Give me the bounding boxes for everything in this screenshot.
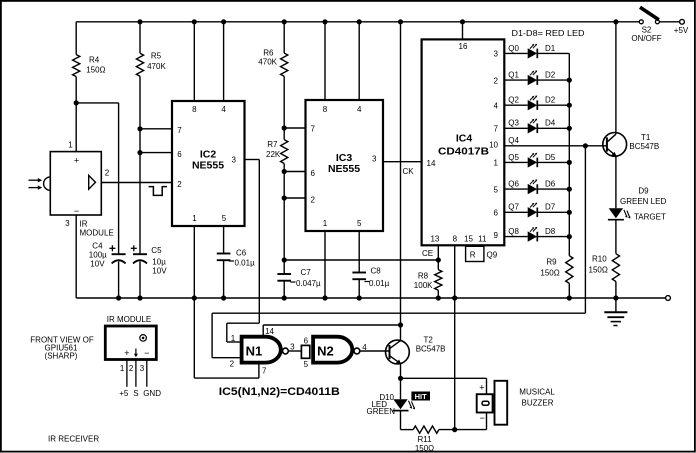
IR input arrows	[29, 179, 40, 181]
svg-text:3: 3	[65, 219, 70, 228]
wire C8 to ground	[358, 279, 360, 298]
svg-text:R7: R7	[267, 140, 278, 149]
wire IC3 pin 7	[284, 127, 305, 129]
svg-text:5: 5	[357, 219, 362, 228]
node T2 emitter	[398, 376, 403, 381]
junction IC4 pin16/rail	[460, 19, 465, 24]
node Q4 feedback	[583, 143, 588, 148]
junction ground rail	[221, 295, 226, 300]
svg-text:IC2: IC2	[200, 148, 217, 160]
svg-text:3: 3	[290, 343, 295, 352]
resistor R6	[281, 53, 288, 76]
wire N1 pin 2	[212, 357, 241, 359]
svg-text:0.047µ: 0.047µ	[296, 279, 321, 288]
svg-text:Q9: Q9	[487, 250, 498, 259]
wire IC4 pin8 to ground/buzzer	[454, 245, 456, 429]
svg-text:+: +	[74, 155, 79, 165]
svg-text:C4: C4	[92, 241, 103, 250]
svg-text:+: +	[124, 348, 129, 358]
lens arc on module	[44, 177, 51, 190]
svg-text:5: 5	[304, 360, 309, 369]
svg-text:3: 3	[140, 364, 145, 373]
wire D2 to bus	[537, 104, 569, 106]
svg-text:10V: 10V	[152, 267, 167, 276]
wire D10 to R11	[400, 411, 402, 430]
wire IC2 pin 7	[140, 128, 172, 130]
wire Q0 to D1	[504, 52, 527, 54]
svg-text:5: 5	[494, 185, 499, 194]
wire Q2 to D2	[504, 104, 527, 106]
svg-text:R: R	[470, 251, 476, 260]
svg-text:4: 4	[362, 343, 367, 352]
svg-text:GND: GND	[143, 389, 161, 398]
junction ground rail	[192, 295, 197, 300]
svg-text:8: 8	[192, 105, 197, 114]
node bus D6	[567, 187, 572, 192]
switch S2 ON/OFF	[639, 20, 643, 24]
svg-text:2: 2	[129, 364, 134, 373]
svg-text:Q2: Q2	[508, 96, 519, 105]
capacitor C6	[217, 253, 231, 255]
svg-text:D8: D8	[545, 227, 556, 236]
svg-text:5: 5	[222, 214, 227, 223]
svg-text:10µ: 10µ	[152, 258, 166, 267]
wire R7 to C7	[283, 164, 285, 275]
wire R9 to ground	[568, 283, 570, 298]
svg-text:−: −	[74, 206, 79, 216]
svg-text:2: 2	[177, 180, 182, 189]
wire Q4 feedback left	[212, 312, 585, 314]
junction T1 collector/rail	[613, 19, 618, 24]
wire pin7 left	[194, 377, 259, 379]
wire IC2 pin 1 to ground	[193, 226, 195, 298]
svg-text:D6: D6	[545, 180, 556, 189]
svg-text:BC547B: BC547B	[416, 344, 446, 353]
svg-text:HIT: HIT	[415, 392, 428, 401]
wire C5 to ground	[139, 262, 141, 299]
LED D5	[528, 157, 537, 167]
wire rail to R4	[75, 22, 77, 55]
junction ground rail	[436, 295, 441, 300]
wire N2 out to T2 base	[360, 350, 390, 352]
wire D7 to bus	[537, 211, 569, 213]
svg-text:T1: T1	[641, 133, 651, 142]
svg-text:Q4: Q4	[508, 136, 519, 145]
resistor R10	[612, 254, 619, 282]
svg-text:Q7: Q7	[508, 203, 519, 212]
junction IC3 pin8/rail	[322, 19, 327, 24]
wire T1 emitter to D9	[615, 156, 617, 208]
resistor R4	[73, 55, 80, 77]
wire Q7 to D7	[504, 211, 527, 213]
wire R6 to R7	[283, 76, 285, 139]
+5V terminal	[680, 19, 685, 24]
svg-text:14: 14	[265, 327, 274, 336]
svg-text:8: 8	[323, 105, 328, 114]
wire D9 to R10	[615, 220, 617, 254]
svg-text:MUSICAL: MUSICAL	[519, 387, 555, 396]
wire N1 pin 1	[227, 341, 242, 343]
svg-text:150Ω: 150Ω	[589, 266, 608, 275]
svg-text:100K: 100K	[414, 281, 433, 290]
LED D10	[393, 399, 407, 409]
svg-text:8: 8	[453, 234, 458, 243]
svg-text:4: 4	[357, 105, 362, 114]
svg-text:NE555: NE555	[328, 163, 360, 175]
svg-text:IC5(N1,N2)=CD4011B: IC5(N1,N2)=CD4011B	[219, 386, 340, 398]
svg-text:MODULE: MODULE	[80, 228, 114, 237]
svg-text:Q8: Q8	[508, 227, 519, 236]
svg-text:6: 6	[177, 150, 182, 159]
junction ground rail	[357, 295, 362, 300]
svg-text:C6: C6	[236, 248, 247, 257]
node pin14/+5V	[398, 322, 403, 327]
svg-text:+: +	[479, 383, 484, 393]
svg-text:R11: R11	[417, 435, 432, 444]
LED D9 target	[609, 208, 623, 218]
ground terminal	[666, 296, 671, 301]
LED D7	[528, 207, 537, 217]
svg-text:IR: IR	[80, 219, 88, 228]
svg-text:3: 3	[232, 156, 237, 165]
svg-text:16: 16	[459, 42, 468, 51]
op IC2 NE555 box	[172, 101, 245, 226]
wire N1 out	[288, 350, 301, 352]
window symbol	[140, 335, 147, 342]
wire pin14 to +5V feed	[263, 324, 400, 326]
wire R10 to ground	[615, 282, 617, 299]
svg-text:7: 7	[177, 126, 182, 135]
svg-text:Q1: Q1	[508, 71, 519, 80]
junction ground rail	[137, 295, 142, 300]
svg-text:N1: N1	[246, 343, 263, 358]
svg-text:IR RECEIVER: IR RECEIVER	[48, 435, 99, 444]
wire R5 to C5	[139, 76, 141, 254]
svg-text:9: 9	[494, 231, 499, 240]
wire Q8 to D8	[504, 236, 527, 238]
node bus D2	[567, 103, 572, 108]
node C7 / CE line	[282, 257, 287, 262]
wire T2 emitter to buzzer plus	[401, 377, 487, 379]
svg-text:14: 14	[427, 159, 436, 168]
wire IC4 pin 16	[462, 22, 464, 40]
wire buzzer plus lead	[486, 378, 488, 394]
svg-text:IC3: IC3	[336, 152, 353, 164]
svg-text:C8: C8	[371, 267, 382, 276]
wire Q4 feedback down	[584, 146, 586, 313]
svg-text:D1: D1	[545, 44, 556, 53]
resistor R9	[566, 256, 573, 284]
svg-text:D2: D2	[545, 71, 556, 80]
down arrow center pin	[135, 349, 137, 356]
svg-text:4: 4	[221, 105, 226, 114]
wire to C4	[76, 102, 118, 104]
svg-text:R4: R4	[89, 56, 100, 65]
pin 1 front view	[126, 360, 128, 387]
resistor R8	[435, 270, 442, 291]
svg-text:470K: 470K	[258, 57, 277, 66]
wire C4 to ground	[118, 262, 120, 299]
svg-text:11: 11	[478, 234, 487, 243]
wire IC3 pin 5 to C8	[358, 231, 360, 273]
wire IC3 pin 1 to ground	[324, 231, 326, 298]
wire D6 to bus	[537, 188, 569, 190]
wire D4 to bus	[537, 127, 569, 129]
svg-text:C7: C7	[301, 268, 312, 277]
LED D4	[528, 123, 537, 133]
svg-text:D5: D5	[545, 153, 556, 162]
svg-text:1: 1	[494, 159, 499, 168]
capacitor C4	[112, 253, 126, 255]
junction +5V feed IC5 pin14 & T2 collector	[398, 19, 403, 24]
wire +5V top rail	[76, 21, 639, 23]
LED D8	[528, 231, 537, 241]
LED cathode bus	[568, 53, 570, 255]
capacitor C8	[352, 272, 366, 274]
node bus D8	[567, 234, 572, 239]
svg-text:1: 1	[323, 219, 328, 228]
wire IC3 pin 2	[284, 197, 305, 199]
svg-text:15: 15	[464, 234, 473, 243]
wire R11 to buzzer minus	[439, 429, 487, 431]
wire Q3 to D4	[504, 127, 527, 129]
resistor R11	[413, 426, 439, 433]
tick C7 label	[290, 281, 295, 283]
wire IC3 pin 4	[358, 22, 360, 100]
svg-text:CE: CE	[422, 249, 433, 258]
node bus D7	[567, 210, 572, 215]
node bus D4	[567, 126, 572, 131]
svg-text:D2: D2	[545, 96, 556, 105]
svg-text:GREEN: GREEN	[367, 407, 396, 416]
svg-text:(SHARP): (SHARP)	[45, 352, 78, 361]
svg-text:3: 3	[494, 50, 499, 59]
op IC4 CD4017B box	[422, 39, 505, 245]
svg-text:IR MODULE: IR MODULE	[107, 315, 151, 324]
wire Q4 to T1 base	[504, 145, 607, 147]
ground symbol	[615, 298, 617, 312]
wire N1 pin14 up	[262, 325, 264, 337]
wire IC2 pin 4	[223, 22, 225, 101]
capacitor C7	[277, 273, 291, 275]
svg-text:Q6: Q6	[508, 180, 519, 189]
svg-text:R10: R10	[592, 255, 607, 264]
svg-text:150Ω: 150Ω	[540, 269, 559, 278]
svg-text:D9: D9	[638, 187, 649, 196]
svg-text:BUZZER: BUZZER	[522, 398, 554, 407]
wire D2 to bus	[537, 79, 569, 81]
svg-text:1: 1	[192, 214, 197, 223]
junction R5/rail	[137, 19, 142, 24]
svg-text:D1-D8= RED LED: D1-D8= RED LED	[512, 29, 585, 38]
wire pin7 to ground	[193, 298, 195, 378]
junction ground rail	[116, 295, 121, 300]
wire IC2 pin3 down	[258, 160, 260, 324]
junction R6/rail	[282, 19, 287, 24]
junction ground rail	[322, 295, 327, 300]
amp triangle in module	[89, 175, 96, 189]
svg-text:Q0: Q0	[508, 44, 519, 53]
HIT tag	[411, 392, 430, 401]
resistor R7	[281, 140, 288, 164]
wire ground rail	[76, 297, 665, 299]
svg-text:1: 1	[120, 364, 125, 373]
svg-text:S: S	[133, 389, 138, 398]
svg-text:7: 7	[494, 125, 499, 134]
svg-text:2: 2	[494, 76, 499, 85]
wire to N1 pin1 b	[226, 323, 228, 342]
wire IC2 pin3 out	[245, 159, 260, 161]
wire Q6 to D6	[504, 188, 527, 190]
svg-text:D7: D7	[545, 203, 556, 212]
node pin6 IC2	[137, 150, 142, 155]
svg-text:4: 4	[494, 101, 499, 110]
svg-text:13: 13	[430, 234, 439, 243]
buzzer contact box	[477, 394, 493, 412]
node IC3 pin7	[282, 125, 287, 130]
node bus D2	[567, 78, 572, 83]
svg-text:T2: T2	[424, 335, 434, 344]
svg-text:+5: +5	[119, 389, 129, 398]
wire module pin2 to IC2 pin2	[101, 182, 172, 184]
svg-text:R9: R9	[546, 258, 557, 267]
svg-text:10V: 10V	[90, 259, 105, 268]
svg-text:R5: R5	[151, 52, 162, 61]
wire IC2 pin 5 to C6	[223, 226, 225, 254]
node pin7 IC2	[137, 126, 142, 131]
wire IC2 pin 8	[193, 22, 195, 101]
wire N1 pin7 down	[258, 363, 260, 379]
svg-text:2: 2	[230, 359, 235, 368]
svg-text:7: 7	[311, 125, 316, 134]
svg-text:−: −	[480, 413, 485, 423]
svg-text:0.01µ: 0.01µ	[235, 259, 256, 268]
junction ground rail	[567, 295, 572, 300]
wire to N1 pin2 down	[211, 313, 213, 358]
svg-text:6: 6	[311, 169, 316, 178]
svg-text:2: 2	[311, 195, 316, 204]
svg-text:7: 7	[262, 367, 267, 376]
svg-text:1: 1	[231, 334, 236, 343]
wire C6 to ground	[223, 260, 225, 298]
IR module front view box	[105, 326, 156, 360]
transistor T2 BC547B	[386, 340, 410, 364]
pin 2 front view	[135, 360, 137, 387]
svg-text:22K: 22K	[266, 150, 281, 159]
svg-text:100µ: 100µ	[89, 250, 107, 259]
wire D5 to bus	[537, 161, 569, 163]
svg-text:3: 3	[372, 155, 377, 164]
wire S2 to +5V terminal	[660, 21, 680, 23]
wire to D10	[400, 378, 402, 399]
connector box pins 5/6 N2	[301, 345, 309, 358]
svg-text:NE555: NE555	[192, 160, 224, 172]
node bus D5	[567, 160, 572, 165]
wire IC3 pin3 to IC4 CK	[383, 161, 422, 163]
svg-text:D4: D4	[545, 119, 556, 128]
svg-text:C5: C5	[151, 246, 162, 255]
node IC3 pin6	[282, 169, 287, 174]
wire IC4 pin13 CE to R8	[437, 245, 439, 269]
wire C7 to ground	[283, 281, 285, 298]
tick C6 label	[229, 260, 234, 262]
svg-text:150Ω: 150Ω	[415, 444, 434, 453]
svg-text:GREEN LED: GREEN LED	[620, 197, 666, 206]
svg-text:BC547B: BC547B	[629, 142, 659, 151]
pin 3 front view	[146, 360, 148, 387]
svg-text:−: −	[144, 348, 149, 358]
wire module pin3 to ground	[75, 215, 77, 298]
wire up to buzzer	[486, 413, 488, 430]
svg-text:10: 10	[489, 140, 498, 149]
wire R8 to ground	[437, 290, 439, 298]
junction ground rail	[282, 295, 287, 300]
svg-text:IC4: IC4	[456, 133, 473, 145]
wire +5V to T2 collector	[400, 22, 402, 341]
svg-text:CD4017B: CD4017B	[438, 146, 489, 158]
wire Q5 to D5	[504, 161, 527, 163]
wire IC3 pin 6	[284, 171, 305, 173]
svg-text:Q5: Q5	[508, 153, 519, 162]
wire IC2 pin 6	[140, 152, 172, 154]
tick C8 label	[365, 281, 370, 283]
LED D2	[528, 75, 537, 85]
node R4/C4/module	[74, 100, 79, 105]
svg-text:Q3: Q3	[508, 119, 519, 128]
wire T2 emitter	[400, 364, 402, 379]
svg-text:150Ω: 150Ω	[86, 65, 105, 74]
svg-text:6: 6	[494, 209, 499, 218]
wire to R11	[401, 429, 414, 431]
node ground/buzzer	[452, 427, 457, 432]
junction ground rail	[613, 295, 618, 300]
capacitor C5	[133, 253, 147, 255]
svg-text:6: 6	[304, 337, 309, 346]
wire module pin 1	[75, 103, 77, 152]
wire D1 to bus	[537, 52, 569, 54]
node IC3 pin2	[282, 195, 287, 200]
svg-text:470K: 470K	[147, 62, 166, 71]
wire rail to R5	[139, 22, 141, 53]
LED D1	[528, 48, 537, 58]
transistor T1 BC547B	[603, 133, 627, 157]
wire to N1 pin1 a	[227, 322, 259, 324]
junction IC3 pin4/rail	[357, 19, 362, 24]
svg-text:ON/OFF: ON/OFF	[631, 34, 661, 43]
wire C4 top lead	[118, 103, 120, 254]
input pulse symbol	[149, 187, 167, 196]
wire Q1 to D2	[504, 79, 527, 81]
wire D8 to bus	[537, 236, 569, 238]
nand gate N1	[242, 337, 281, 363]
musical buzzer body	[495, 381, 508, 425]
wire IC3 pin 8	[324, 22, 326, 100]
nand gate N2	[313, 337, 352, 363]
svg-text:1: 1	[68, 140, 73, 149]
junction IC2 pin8/rail	[192, 19, 197, 24]
svg-text:CK: CK	[403, 167, 415, 176]
svg-text:R8: R8	[418, 272, 429, 281]
svg-text:+5V: +5V	[674, 26, 689, 35]
svg-text:0.01µ: 0.01µ	[369, 279, 390, 288]
wire rail to R6	[283, 22, 285, 53]
wire +5V to T1 collector	[615, 22, 617, 134]
LED D6	[528, 184, 537, 194]
node CE/R8	[436, 257, 441, 262]
junction IC2 pin4/rail	[221, 19, 226, 24]
IR module (receiver) box	[50, 152, 101, 215]
wire CE line to R8	[284, 259, 438, 261]
